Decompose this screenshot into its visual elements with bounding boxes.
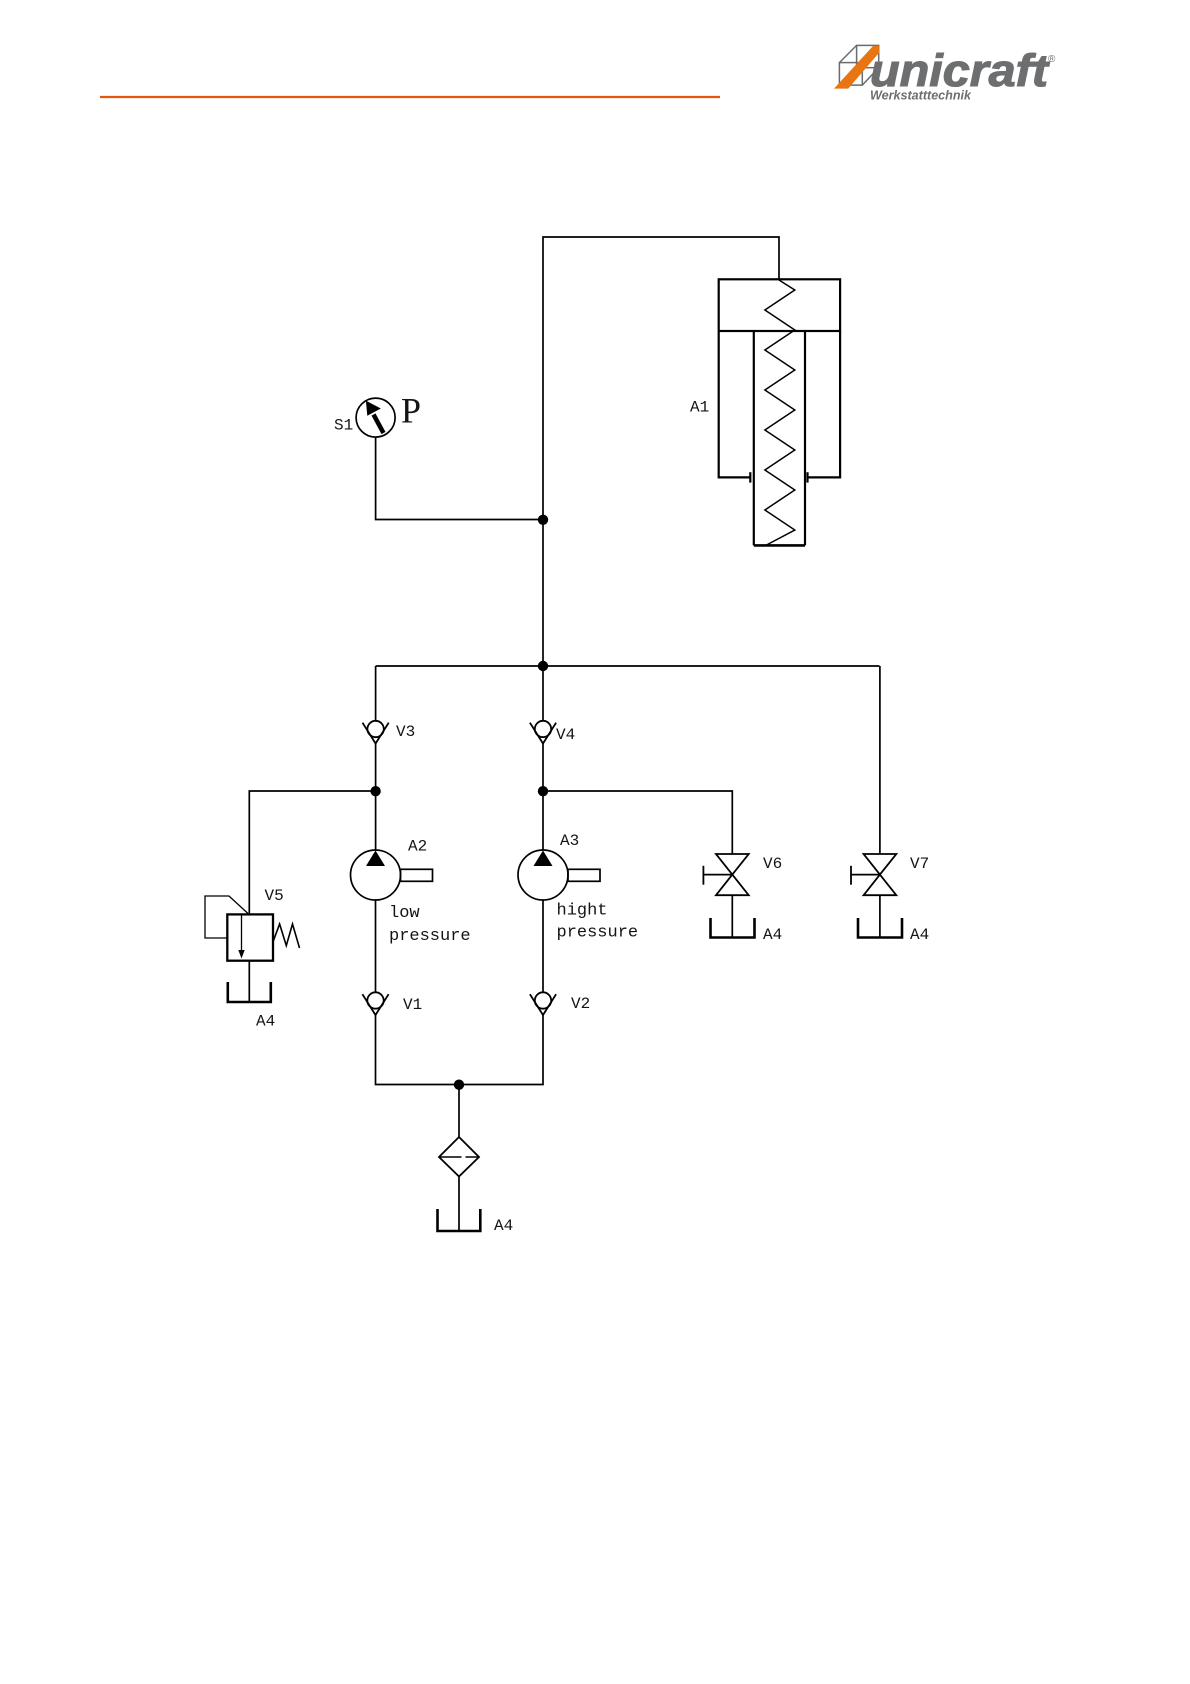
svg-text:V5: V5 xyxy=(265,887,284,905)
svg-text:V2: V2 xyxy=(571,995,590,1013)
svg-text:pressure: pressure xyxy=(389,927,471,946)
svg-text:®: ® xyxy=(1048,54,1056,65)
svg-text:hight: hight xyxy=(557,902,608,921)
svg-text:V3: V3 xyxy=(396,723,415,741)
svg-text:S1: S1 xyxy=(334,417,353,435)
svg-text:P: P xyxy=(401,391,421,431)
svg-text:V7: V7 xyxy=(910,855,929,873)
svg-text:low: low xyxy=(389,904,420,923)
svg-text:pressure: pressure xyxy=(557,924,639,943)
svg-text:V1: V1 xyxy=(403,996,422,1014)
svg-text:Werkstatttechnik: Werkstatttechnik xyxy=(870,88,972,103)
svg-text:A4: A4 xyxy=(256,1013,275,1031)
svg-text:V4: V4 xyxy=(556,726,575,744)
svg-text:A4: A4 xyxy=(763,926,782,944)
svg-text:V6: V6 xyxy=(763,855,782,873)
svg-text:A1: A1 xyxy=(690,399,709,417)
svg-text:A3: A3 xyxy=(560,832,579,850)
svg-text:A4: A4 xyxy=(910,926,929,944)
svg-text:A4: A4 xyxy=(494,1217,513,1235)
svg-text:A2: A2 xyxy=(408,838,427,856)
